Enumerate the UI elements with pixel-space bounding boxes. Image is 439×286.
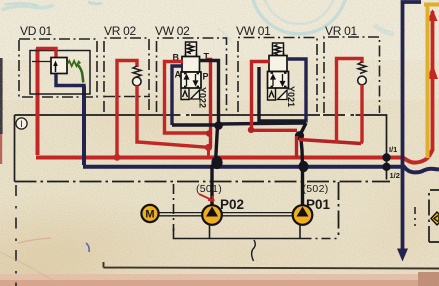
wire navy tank main (long) bbox=[83, 86, 439, 172]
pump P02 suction stub bbox=[209, 225, 211, 239]
pump P01 suction stub bbox=[299, 225, 301, 239]
enclosure box VD 01 bbox=[19, 39, 97, 97]
junction dot red near pump line bbox=[205, 144, 212, 151]
pilot line VD01 bbox=[32, 61, 51, 63]
flow arrows VW02 bbox=[185, 74, 198, 86]
enclosure box VR 01 bbox=[324, 37, 380, 113]
port stubs VW02 bbox=[186, 54, 197, 58]
solenoid box VW02 bbox=[181, 89, 189, 100]
svg-text:(502): (502) bbox=[303, 183, 329, 195]
junction dot T/collector bbox=[214, 121, 223, 130]
wire red pilot loop VD01 bbox=[36, 49, 56, 59]
svg-text:VR 01: VR 01 bbox=[325, 24, 357, 38]
red flow arrowhead upper bbox=[428, 9, 438, 21]
check valve ball VR01 bbox=[358, 76, 367, 85]
svg-text:I/1: I/1 bbox=[389, 145, 397, 154]
svg-text:VW 01: VW 01 bbox=[236, 24, 271, 38]
port stubs VW01 bbox=[273, 53, 284, 57]
section marker circle I bbox=[16, 118, 27, 129]
wire black drop to pump P02 bbox=[212, 126, 218, 206]
wire red VW02 port A bbox=[165, 62, 211, 134]
junction blob on tank main at pump P02 line bbox=[211, 156, 222, 169]
neighbour diamond symbol bbox=[431, 212, 439, 225]
green pilot return line bbox=[78, 65, 84, 83]
scan edge sliver left bbox=[0, 58, 3, 134]
faint crease bottom left bbox=[0, 252, 62, 286]
bottom long line bbox=[104, 262, 439, 269]
faint pink streak bbox=[18, 238, 51, 243]
wire navy VD01 outlet bbox=[56, 74, 84, 90]
section boundary I/II dash-dot bbox=[15, 181, 391, 183]
svg-text:VR 02: VR 02 bbox=[104, 24, 136, 38]
valve upper position box VW02 bbox=[182, 57, 200, 73]
frame left edge bbox=[14, 115, 16, 182]
valve lower position box VW02 bbox=[181, 72, 201, 88]
solenoid spring symbol VW01 bbox=[273, 43, 284, 57]
svg-text:(501): (501) bbox=[196, 183, 222, 195]
svg-text:VW 02: VW 02 bbox=[155, 24, 190, 38]
dash-dot continuation right of pump frame bbox=[303, 238, 339, 240]
valve upper position box VW01 bbox=[269, 56, 287, 72]
wire red VW01 port A bbox=[252, 62, 298, 131]
red flow arrowhead mid bbox=[427, 64, 438, 79]
relief valve arrow VD01 bbox=[55, 63, 57, 72]
wire navy collector to VW01 bbox=[172, 123, 306, 125]
wire navy sheet-edge riser with top corner bbox=[403, 2, 422, 255]
enclosure box VR 02 bbox=[104, 38, 149, 112]
neighbour component box bbox=[429, 190, 439, 242]
dash-dot bottom edge under VR 02 bbox=[104, 96, 150, 98]
solenoid box VW01 bbox=[268, 89, 276, 101]
drive shaft M-P02 bbox=[159, 213, 203, 216]
port ticks VW02 bbox=[184, 74, 199, 87]
lower dash-dot boundary left vertical bbox=[15, 185, 17, 286]
inner solid box VD01 bbox=[30, 51, 90, 95]
svg-text:Y021: Y021 bbox=[286, 86, 296, 107]
manifold top line with section marker bbox=[15, 115, 387, 180]
junction blob on tank main at pump P01 line bbox=[299, 161, 309, 172]
wire red drop to pressure main bbox=[295, 136, 298, 158]
drive shaft P02-P01 bbox=[222, 213, 292, 216]
dash-dot gaps on manifold line bbox=[181, 114, 356, 116]
svg-text:VD 01: VD 01 bbox=[20, 24, 52, 38]
wire red VR02 outlet leg bbox=[137, 86, 208, 148]
svg-text:A: A bbox=[175, 70, 182, 80]
lower dash-dot vertical mid bbox=[173, 184, 175, 231]
svg-text:Y022: Y022 bbox=[198, 87, 208, 108]
dash-dot stub above neighbour box bbox=[414, 207, 416, 226]
wire black VW01 port T bbox=[259, 67, 306, 121]
red annotation arrow near 501 bbox=[199, 194, 214, 201]
pump suction frame bbox=[174, 228, 303, 239]
boundary drop at x338 bbox=[338, 182, 340, 239]
proportional wedge VW02 bbox=[191, 90, 200, 99]
solenoid spring symbol VW02 bbox=[186, 42, 197, 57]
junction dot on tank main at x386 bbox=[382, 163, 390, 171]
junction dot red A-line bbox=[206, 130, 212, 136]
port ticks VW01 bbox=[271, 73, 287, 87]
enclosure box VW 01 bbox=[238, 38, 317, 113]
enclosure box VW 02 bbox=[157, 38, 227, 112]
wire red pressure main (long) bbox=[36, 49, 433, 163]
svg-text:P02: P02 bbox=[220, 197, 244, 212]
wire red VW02 port P bbox=[206, 60, 211, 148]
yellow highlight line at sheet edge bbox=[424, 3, 439, 158]
wire navy VW01 port B bbox=[287, 59, 306, 123]
svg-text:I: I bbox=[20, 119, 23, 129]
navy arrowhead down bbox=[397, 249, 408, 262]
stray blue pen tick bbox=[86, 243, 89, 252]
wire red VR02 inlet arch bbox=[117, 61, 137, 158]
valve lower position box VW01 bbox=[268, 72, 289, 89]
wire black VW02 port T bbox=[199, 61, 219, 127]
check valve ball VR02 bbox=[133, 77, 142, 86]
wire navy VW02 port B bbox=[172, 66, 183, 125]
wire red link to VR01 bbox=[299, 140, 361, 144]
junction dot red VW01 bbox=[248, 127, 254, 133]
pump P01 bbox=[293, 205, 313, 225]
svg-text:1/2: 1/2 bbox=[390, 171, 400, 180]
junction dot red on pressure main bbox=[114, 154, 121, 161]
check valve spring VR02 bbox=[133, 66, 141, 78]
relief valve body VD01 bbox=[51, 58, 67, 74]
pump P02 bbox=[202, 205, 222, 225]
flow arrows VW01 bbox=[271, 74, 285, 86]
spring VD01 (green) bbox=[68, 61, 81, 66]
svg-text:M: M bbox=[145, 209, 154, 221]
motor M bbox=[141, 205, 158, 222]
wire red riser to sheet edge bbox=[431, 11, 435, 151]
junction dot on pressure main at x386 bbox=[382, 153, 390, 161]
wire black drop to pump P01 bbox=[301, 123, 307, 206]
tank squiggle drop line bbox=[252, 240, 256, 261]
check valve spring VR01 bbox=[358, 62, 366, 74]
wire red stub to pressure main bbox=[207, 147, 210, 158]
proportional wedge VW01 bbox=[278, 90, 288, 100]
cyan smudges bbox=[2, 0, 394, 42]
wire red VR01 inlet arch bbox=[337, 59, 363, 143]
junction dot VW01 collector bbox=[295, 131, 304, 140]
wire red VR01 outlet leg bbox=[361, 85, 362, 144]
svg-text:P: P bbox=[203, 72, 209, 82]
